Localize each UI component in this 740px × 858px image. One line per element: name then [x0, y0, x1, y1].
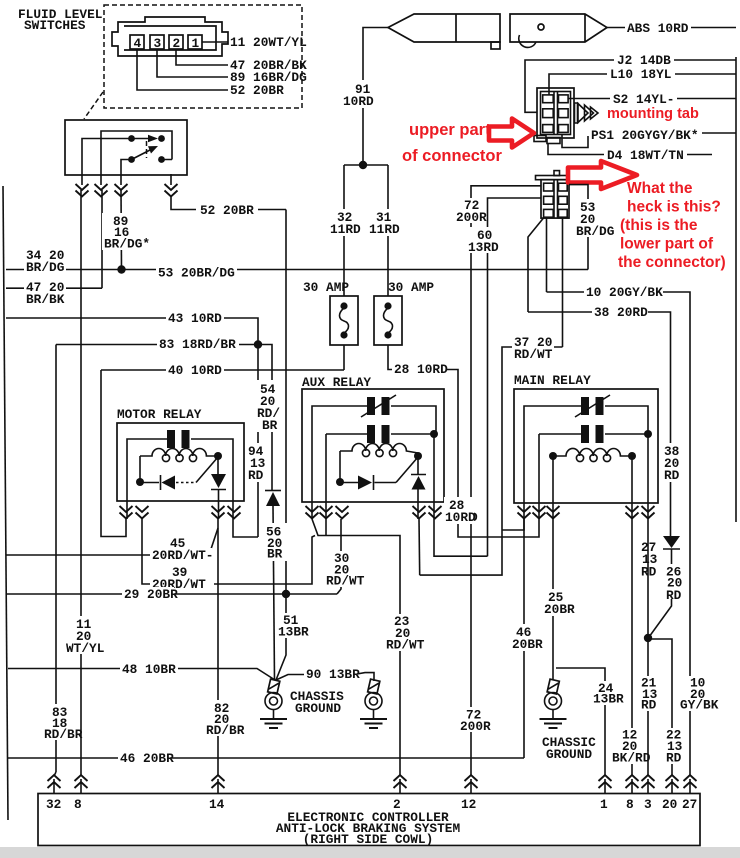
svg-text:27: 27 [682, 797, 697, 812]
switch contact dots top [128, 135, 135, 142]
svg-text:mounting tab: mounting tab [607, 106, 699, 122]
chassis ground G3 terminal [547, 679, 559, 694]
pin 1 [188, 35, 202, 49]
svg-text:RD: RD [666, 588, 682, 603]
wire 29 20BR [6, 593, 337, 595]
svg-text:38 20RD: 38 20RD [594, 305, 648, 320]
svg-text:BR/DG*: BR/DG* [104, 237, 150, 252]
wire 51 13BR [276, 594, 286, 680]
label 28 10RD [392, 362, 448, 377]
svg-text:53 20BR/DG: 53 20BR/DG [158, 266, 235, 281]
svg-text:RD/WT: RD/WT [326, 574, 365, 589]
svg-text:13RD: 13RD [468, 240, 499, 255]
svg-text:upper part: upper part [409, 121, 491, 139]
switch inner wire upper [101, 131, 172, 174]
label 21 13 RD [639, 676, 658, 713]
label 94 13 RD [246, 443, 270, 483]
wire main ch3 25 to ground [552, 519, 554, 680]
label 40 10RD [166, 363, 224, 378]
svg-text:40 10RD: 40 10RD [168, 363, 222, 378]
switch blade bottom with arrow [132, 150, 151, 160]
aux relay upper contact wire [312, 406, 436, 519]
svg-text:90 13BR: 90 13BR [306, 667, 360, 682]
svg-text:MOTOR RELAY: MOTOR RELAY [117, 407, 202, 422]
wire motor ch3 82 bus [217, 519, 219, 772]
chassis ground G3 earth [552, 710, 554, 720]
wire fuse F1 top [343, 165, 345, 296]
svg-text:PS1 20GYGY/BK*: PS1 20GYGY/BK* [591, 128, 699, 143]
wire pin4 to 52 20BR [137, 49, 228, 90]
connector C1 lower half flange [536, 176, 570, 180]
wire S2 right [677, 98, 736, 100]
wire D4 18WT/TN [548, 144, 604, 155]
main relay upper contact wire [524, 406, 648, 519]
svg-text:200R: 200R [460, 719, 491, 734]
wire stubs box bottom [82, 174, 171, 185]
controller pin chevrons [48, 775, 61, 788]
main relay node dots [549, 452, 557, 460]
connector C1 cells [543, 95, 554, 103]
label 30 20 RD/WT [323, 551, 365, 589]
svg-text:13BR: 13BR [278, 625, 309, 640]
svg-text:1: 1 [192, 36, 200, 51]
wire 37 from connector [562, 218, 564, 348]
aux relay coil left drop [339, 451, 341, 482]
switch mechanical dashed link [146, 141, 148, 158]
svg-text:14: 14 [209, 797, 225, 812]
main relay cap right riser [647, 434, 649, 519]
label 27 13 RD [640, 540, 659, 580]
motor relay node dots [136, 478, 144, 486]
label 38 20 RD vertical [662, 443, 684, 483]
wire L10 18YL [549, 74, 607, 95]
wire 83 18RD/BR [56, 345, 272, 773]
aux relay cap right riser [433, 434, 435, 519]
connector C1 center rib [554, 92, 558, 135]
svg-text:11 20WT/YL: 11 20WT/YL [230, 35, 307, 50]
aux relay lower contact wire [326, 434, 434, 519]
label 22 13 RD [664, 728, 683, 766]
svg-text:2: 2 [173, 36, 181, 51]
label 32 11RD [328, 209, 363, 237]
svg-text:(this is the: (this is the [620, 217, 698, 234]
label 53 20BR/DG [156, 264, 237, 281]
wire ABS 10RD [607, 27, 625, 29]
svg-text:RD: RD [248, 468, 264, 483]
svg-text:3: 3 [644, 797, 652, 812]
wire 38 20RD [528, 312, 671, 536]
svg-text:11RD: 11RD [330, 222, 361, 237]
junction dot 89/53 [117, 265, 125, 273]
wire 53 from connector [569, 185, 588, 270]
main relay upper contact slash [575, 395, 610, 417]
diode D38 down [663, 536, 680, 548]
svg-text:20: 20 [662, 797, 677, 812]
fuse F1 30 AMP [330, 296, 358, 345]
label 28 10RD lower [446, 497, 478, 525]
wire aux ch3 30 RD/WT [337, 519, 341, 594]
label 39 20RD/WT [150, 565, 214, 592]
junction dot 43/83 [254, 340, 262, 348]
label 83 18RD/BR [157, 337, 239, 352]
motor relay contact bars [167, 430, 175, 448]
connector C1 lower center rib [554, 180, 558, 218]
wire 22 branch [648, 639, 672, 772]
label 25 20BR [542, 589, 576, 617]
wire 43 10RD [6, 318, 258, 537]
wire 46 20BR [8, 757, 524, 759]
svg-text:30 AMP: 30 AMP [303, 280, 349, 295]
fluid level switch box [65, 120, 187, 175]
wire junction 91 split [344, 164, 388, 166]
wire stubs above chevrons [54, 772, 690, 776]
wire aux ch5 to 60 [434, 519, 488, 556]
wire main ch4 27/12 bus [631, 519, 633, 772]
wire ABS right [691, 27, 736, 29]
label 29 20BR [122, 587, 178, 602]
wire 26 diagonal to dot [649, 599, 672, 637]
motor relay coil left drop [139, 456, 141, 482]
svg-text:AUX RELAY: AUX RELAY [302, 375, 371, 390]
wire 47 bus [6, 287, 102, 289]
svg-text:30 AMP: 30 AMP [388, 280, 434, 295]
wire aux ch1 to 23 [312, 519, 400, 772]
label 37 20 RD/WT [512, 334, 554, 362]
fuse F2 30 AMP [374, 296, 402, 345]
switch inner wire left [82, 139, 130, 175]
wire 47 branch [101, 190, 103, 288]
main relay lower contact bars [581, 425, 589, 443]
svg-text:46 20BR: 46 20BR [120, 751, 174, 766]
aux relay lower contact bars [367, 425, 375, 443]
label 72 200R upper [455, 198, 487, 225]
wire 34/53 bus [6, 269, 588, 271]
connector C1 lower half top tab [554, 171, 560, 176]
svg-text:28 10RD: 28 10RD [394, 362, 448, 377]
svg-text:52 20BR: 52 20BR [230, 83, 284, 98]
svg-text:RD/BR: RD/BR [44, 727, 83, 742]
wire 37 20 RD/WT corner [420, 347, 563, 575]
svg-text:20RD/WT-: 20RD/WT- [152, 548, 213, 563]
label 10 20 GY/BK vertical [678, 676, 719, 713]
chassis ground G1 earth [273, 710, 275, 720]
label 60 13RD [466, 227, 500, 255]
aux relay switch blade [396, 457, 418, 483]
motor relay diode D-down [211, 456, 226, 519]
wire 91 10RD [363, 28, 388, 166]
svg-text:S2 14YL-: S2 14YL- [613, 92, 674, 107]
wire aux ch4 to 37 node [418, 519, 421, 575]
connector J1 fluid level switch (4-pin) outline [112, 17, 228, 56]
wire 72 200R upper [471, 186, 541, 772]
svg-text:11RD: 11RD [369, 222, 400, 237]
wire J2 14DB [525, 60, 614, 112]
junction dot 29/51 [282, 590, 290, 598]
svg-text:20BR: 20BR [544, 602, 575, 617]
main relay upper contact bars [581, 397, 589, 415]
main relay box [514, 389, 658, 503]
wire aux ch2 join [325, 519, 327, 536]
svg-text:SWITCHES: SWITCHES [24, 18, 86, 33]
wire main ch1 46 bus [523, 519, 525, 758]
connector C1 lower half body [541, 180, 569, 218]
label 11 20 WT/YL [63, 616, 105, 656]
wire 45 20RD/WT [6, 528, 218, 555]
label 46 20BR bottom [118, 751, 174, 766]
svg-text:1: 1 [600, 797, 608, 812]
svg-text:RD/BR: RD/BR [206, 723, 245, 738]
mounting tab screw [575, 103, 578, 123]
label 90 13BR [304, 667, 360, 682]
svg-text:BR/BK: BR/BK [26, 292, 65, 307]
wire motor ch2 to 39 [142, 519, 315, 584]
dashed detail box [104, 5, 302, 108]
chassis ground G3 ring [545, 693, 562, 710]
svg-text:heck is this?: heck is this? [627, 199, 721, 216]
svg-text:GY/BK: GY/BK [680, 698, 719, 713]
label 89 16 BR/DG* [102, 213, 154, 252]
label 24 13BR [591, 681, 624, 707]
label 83 18 RD/BR bottom [40, 704, 83, 742]
wire PS1 bracket [562, 134, 588, 148]
label 47 20 BR/BK [24, 280, 66, 307]
aux relay upper contact slash [361, 395, 396, 417]
pin 2 [169, 35, 183, 49]
label 53 20 BR/DG [573, 199, 615, 239]
main relay coil risers [553, 456, 632, 519]
svg-text:WT/YL: WT/YL [66, 641, 105, 656]
svg-text:MAIN RELAY: MAIN RELAY [514, 373, 591, 388]
label 54 20 RD/BR [256, 380, 284, 433]
svg-text:13BR: 13BR [593, 692, 624, 707]
wire 10 from connector [546, 218, 548, 293]
motor relay switch blade [196, 457, 218, 483]
switch lower jogs [121, 160, 172, 175]
svg-text:52 20BR: 52 20BR [200, 203, 254, 218]
svg-text:10RD: 10RD [343, 94, 374, 109]
wire 89 branch to junction [120, 190, 123, 270]
svg-text:RD: RD [641, 565, 657, 580]
connector C1 lower cells [544, 183, 554, 191]
svg-text:What the: What the [627, 180, 693, 197]
svg-text:GROUND: GROUND [546, 747, 592, 762]
svg-text:RD/WT: RD/WT [514, 347, 553, 362]
main relay node dot right [644, 430, 652, 438]
wire pin3 to 89 16BR/DG [157, 49, 228, 77]
svg-text:GROUND: GROUND [295, 701, 341, 716]
svg-text:8: 8 [74, 797, 82, 812]
wire 60 13RD upper [488, 198, 542, 556]
electronic controller box [38, 794, 700, 846]
red arrow what is this [568, 161, 637, 189]
svg-text:of connector: of connector [402, 147, 502, 165]
svg-text:48 10BR: 48 10BR [122, 662, 176, 677]
label 28 10RD right [444, 497, 476, 525]
label 10 20GY/BK [584, 285, 663, 300]
aux relay node dots [336, 478, 344, 486]
aux relay coil [340, 443, 418, 453]
svg-text:10 20GY/BK: 10 20GY/BK [586, 285, 663, 300]
connector C1 upper half body [537, 88, 574, 138]
chassis ground G2 ring [365, 693, 382, 710]
wire 52 20BR [171, 197, 286, 210]
wire 90 13BR [276, 673, 374, 681]
svg-text:3: 3 [154, 36, 162, 51]
svg-text:RD/WT: RD/WT [386, 638, 425, 653]
svg-text:200R: 200R [456, 210, 487, 225]
svg-text:29 20BR: 29 20BR [124, 587, 178, 602]
svg-text:32: 32 [46, 797, 61, 812]
main relay coil [553, 448, 632, 456]
wire motor ch4 to 94 riser [233, 519, 258, 537]
wire 28 10RD from fuse F2 [388, 345, 539, 537]
aux relay chevrons [306, 506, 319, 519]
svg-text:4: 4 [134, 36, 142, 51]
label 43 10RD [166, 311, 224, 326]
wire S2 14YL [568, 98, 610, 100]
controller pin stubs [54, 779, 690, 794]
wire pin2 to 47 20BR/BK [176, 49, 228, 65]
label 45 20RD/WT [150, 536, 213, 563]
wire pin1 to 11 20WT/YL [202, 41, 228, 43]
chassis ground G2 earth [373, 710, 375, 720]
label 51 13BR [276, 613, 309, 640]
motor relay coil [140, 448, 218, 456]
label 26 20 RD [663, 564, 684, 603]
label 38 20RD [592, 305, 648, 320]
svg-text:L10 18YL: L10 18YL [610, 67, 672, 82]
wire fuse F2 top [387, 165, 389, 296]
red arrow upper part [489, 119, 534, 148]
dashed leader line [84, 92, 103, 119]
label 31 11RD [367, 209, 402, 237]
svg-text:BK/RD: BK/RD [612, 751, 651, 766]
label 56 20 BR [263, 523, 287, 562]
wire 52/51 long vertical [285, 210, 287, 595]
svg-text:BR: BR [262, 418, 278, 433]
chassis ground G2 terminal [368, 679, 380, 694]
label 23 20 RD/WT [384, 614, 426, 653]
svg-text:43 10RD: 43 10RD [168, 311, 222, 326]
wire 24 13BR branch [556, 668, 605, 772]
fusible link left [388, 14, 500, 42]
svg-text:BR: BR [267, 547, 283, 562]
svg-text:the connector): the connector) [618, 254, 726, 271]
label 91 10RD [341, 80, 377, 109]
motor relay chevrons [120, 506, 133, 519]
aux relay upper contact bars [367, 397, 375, 415]
motor relay contact wire [127, 439, 233, 519]
fusible link right [510, 14, 607, 42]
wire 40 10RD [101, 345, 344, 537]
svg-text:RD: RD [641, 698, 657, 713]
svg-text:12: 12 [461, 797, 476, 812]
inline connector chevrons under switch box [76, 184, 89, 197]
pin 3 [150, 35, 164, 49]
wire 56 to ground [273, 506, 275, 680]
label 48 10BR [120, 662, 178, 677]
svg-text:20BR: 20BR [512, 637, 543, 652]
chassis ground G1 terminal [268, 679, 280, 694]
switch blade top with arrow [132, 138, 149, 140]
aux relay diode D-up [411, 456, 426, 519]
label 12 20 BK/RD [611, 728, 651, 766]
wire J2 right [674, 59, 736, 61]
wire 11 bus (switch pin to controller pin 8) [80, 190, 82, 772]
fuse hook [519, 35, 536, 47]
wire 10 20GY/BK [547, 292, 691, 772]
svg-text:RD: RD [666, 751, 682, 766]
aux relay node dot right [430, 430, 438, 438]
svg-text:ABS 10RD: ABS 10RD [627, 21, 689, 36]
page bottom scan band [0, 847, 740, 858]
junction dot 26/21/22 [644, 634, 652, 642]
left page border [3, 186, 8, 820]
motor relay diode D-left [140, 475, 161, 490]
chassis ground G1 ring [265, 693, 282, 710]
aux relay diode D-right [340, 475, 396, 490]
label 72 200R bottom [457, 707, 491, 734]
svg-text:(RIGHT SIDE COWL): (RIGHT SIDE COWL) [303, 832, 434, 847]
label 46 20BR vertical [510, 624, 543, 652]
aux relay box [302, 389, 444, 502]
svg-text:J2 14DB: J2 14DB [617, 53, 671, 68]
svg-text:10RD: 10RD [445, 510, 476, 525]
svg-text:BR/DG: BR/DG [26, 260, 65, 275]
main relay lower contact wire [539, 434, 648, 519]
svg-text:lower part of: lower part of [620, 236, 714, 253]
svg-text:RD: RD [664, 468, 680, 483]
svg-text:D4 18WT/TN: D4 18WT/TN [607, 148, 684, 163]
wire 48 10BR [8, 669, 275, 681]
switch contact dots bottom [128, 156, 135, 163]
label 34 20 BR/DG [24, 248, 66, 275]
label 82 20 RD/BR bottom [202, 700, 245, 738]
wire L10 right [675, 73, 736, 75]
wire main ch5 21 bus [647, 519, 649, 772]
motor relay box [117, 423, 244, 501]
wire D4 right [687, 154, 712, 156]
main relay chevrons [518, 506, 531, 519]
svg-text:BR/DG: BR/DG [576, 224, 615, 239]
wire 38 diagonal from connector [528, 218, 544, 312]
svg-text:8: 8 [626, 797, 634, 812]
connector C1 feet [534, 136, 546, 142]
svg-text:83 18RD/BR: 83 18RD/BR [159, 337, 236, 352]
label 52 20BR [196, 202, 258, 218]
wire PS1 right [702, 132, 736, 134]
pin 4 [130, 35, 144, 49]
diode D56 up [265, 490, 281, 492]
right page border [735, 57, 737, 522]
